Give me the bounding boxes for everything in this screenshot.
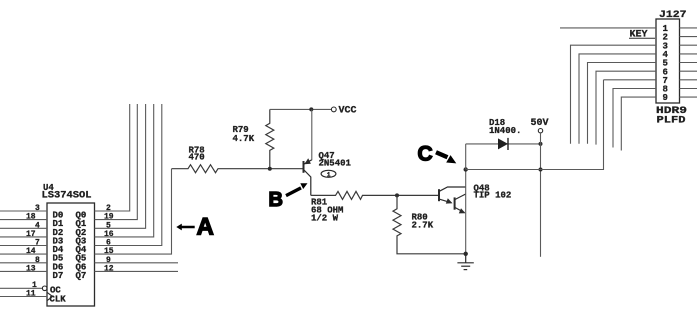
wire D1 input	[0, 219, 47, 221]
svg-text:3: 3	[35, 204, 40, 213]
wire connector pin 4 stub	[579, 54, 656, 144]
wire OC input	[0, 287, 43, 289]
wire connector pin 5 stub	[588, 63, 657, 144]
transistor Q47 base bar	[303, 161, 305, 173]
transistor Q48 T2 collector	[455, 194, 466, 200]
wire connector pin 3 stub	[571, 45, 657, 144]
wire Q2 output to stub	[95, 104, 146, 228]
wire Q5 output to resistor R78	[95, 169, 172, 254]
svg-text:2N5401: 2N5401	[319, 159, 352, 169]
package marker ellipse	[321, 170, 336, 177]
svg-text:B: B	[269, 189, 283, 211]
svg-text:Q7: Q7	[76, 271, 87, 281]
wire KEY pin 1	[560, 27, 656, 29]
svg-text:A: A	[197, 213, 214, 240]
wire connector pin 8 stub	[613, 89, 656, 148]
resistor R78	[172, 165, 304, 173]
svg-text:14: 14	[26, 247, 36, 256]
junction node emitter/ground	[464, 252, 468, 256]
svg-text:J127: J127	[659, 10, 687, 21]
junction node R78/R79/Q47 base	[268, 167, 272, 171]
CLK edge-trigger triangle	[47, 292, 53, 300]
svg-text:VCC: VCC	[339, 106, 357, 117]
transistor Q48 T1 collector	[440, 187, 466, 191]
50V terminal circle	[538, 129, 542, 133]
VCC terminal circle	[331, 107, 336, 112]
callout arrow B	[286, 188, 301, 196]
wire CLK input	[0, 296, 47, 298]
diode D18	[498, 138, 508, 149]
junction node R79/VCC rail	[309, 107, 313, 111]
svg-text:LS374SOL: LS374SOL	[42, 191, 92, 202]
wire connector pin 9 stub	[621, 97, 656, 150]
wire D6 input	[0, 262, 47, 264]
transistor Q48 T1 emitter arrow	[440, 199, 452, 203]
svg-text:2.7K: 2.7K	[412, 221, 434, 231]
connector right-side stubs	[680, 28, 698, 97]
wire diode branch top	[466, 143, 541, 145]
wire Q4 output to stub	[95, 104, 162, 246]
wire D7 input	[0, 270, 47, 272]
OC inversion bubble	[42, 286, 47, 291]
svg-text:KEY: KEY	[630, 30, 648, 41]
wire Q47 emitter to VCC rail	[311, 109, 313, 160]
svg-text:7: 7	[35, 239, 40, 248]
svg-text:19: 19	[104, 213, 114, 222]
wire connector pin 6 stub	[596, 71, 656, 144]
transistor Q48 second base bar	[454, 197, 456, 209]
junction node R81/R80	[395, 193, 399, 197]
transistor Q47 emitter with PNP arrow	[304, 160, 312, 164]
svg-text:D7: D7	[53, 271, 64, 281]
resistor R79	[266, 109, 274, 168]
wire D4 input	[0, 245, 47, 247]
svg-text:11: 11	[26, 290, 36, 299]
connector J127 body	[656, 19, 680, 103]
junction node diode/50V	[539, 142, 543, 146]
wire C node to connector pin 7	[466, 80, 604, 170]
svg-text:1N400.: 1N400.	[489, 126, 521, 136]
wire D2 input	[0, 227, 47, 229]
wire Q1 output to stub	[95, 104, 138, 220]
svg-text:8: 8	[35, 256, 40, 265]
svg-text:15: 15	[104, 247, 114, 256]
wire 50V rail vertical	[540, 133, 542, 257]
resistor R81	[311, 191, 439, 199]
svg-text:4.7K: 4.7K	[233, 134, 255, 144]
svg-text:TIP 102: TIP 102	[474, 190, 512, 200]
svg-text:4: 4	[35, 221, 40, 230]
transistor Q48 T2 emitter arrow	[455, 208, 465, 213]
wire Q0 output to stub	[95, 104, 130, 211]
wire VCC rail	[270, 108, 332, 110]
junction node C	[464, 167, 468, 171]
callout arrow C	[436, 152, 448, 157]
svg-text:1: 1	[327, 172, 331, 179]
svg-text:18: 18	[26, 213, 36, 222]
callout arrow A	[176, 224, 194, 231]
svg-text:1/2 W: 1/2 W	[311, 214, 339, 224]
wire Q3 output to stub	[95, 104, 154, 237]
ground symbol	[457, 254, 473, 270]
wire D3 input	[0, 236, 47, 238]
svg-text:50V: 50V	[531, 118, 549, 129]
IC U4 body	[47, 203, 95, 306]
transistor Q48 first base bar	[438, 189, 440, 201]
svg-text:12: 12	[104, 264, 114, 273]
junction node 50V rail / C wire	[539, 168, 543, 172]
svg-text:13: 13	[26, 264, 36, 273]
wire Q7 output stub	[95, 270, 179, 272]
resistor R80	[393, 195, 466, 253]
wire D0 input	[0, 210, 47, 212]
svg-text:C: C	[418, 142, 433, 165]
transistor Q47 collector	[304, 170, 311, 195]
wire D5 input	[0, 253, 47, 255]
svg-text:470: 470	[189, 152, 205, 162]
wire C node to diode branch	[465, 144, 467, 170]
wire Q48 collector rail	[465, 170, 467, 254]
svg-text:PLFD: PLFD	[657, 116, 686, 127]
wire Q6 output stub	[95, 262, 179, 264]
wire connector pin 7 to C node drawn above	[604, 79, 657, 81]
svg-text:9: 9	[663, 93, 668, 103]
